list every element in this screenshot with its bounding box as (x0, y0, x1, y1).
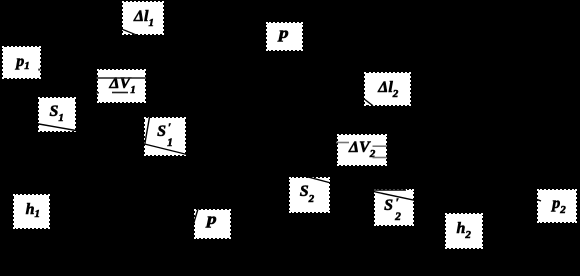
label box S1 (39, 98, 75, 131)
label box p (top) (267, 23, 302, 50)
label box p2 (538, 190, 576, 222)
label box S1-prime (145, 118, 185, 155)
label box Delta-V1 (98, 70, 145, 102)
wire steep line through p (bottom) box (193, 209, 198, 226)
wire leader through Delta-l2 box (364, 99, 374, 106)
label box S2-prime (375, 190, 413, 225)
label box h1 (14, 195, 49, 228)
label box Delta-V2 (338, 135, 386, 165)
wire diagonal line along bottom of S1-prime box (145, 144, 188, 155)
wire gray level line right lower of Delta-V2 text (373, 157, 388, 159)
label box Delta-l2 (365, 73, 410, 105)
wire tick at left edge of Delta-V1 box (96, 92, 99, 94)
label box S2 (290, 178, 329, 212)
wire short level line under Delta-V1 text (112, 92, 128, 94)
wire horizontal line through Delta-V1 box (96, 77, 146, 79)
wire horizontal line at top of S2-prime box (374, 189, 406, 191)
wire gray level line right upper of Delta-V2 text (373, 145, 388, 147)
label box Delta-l1 (123, 2, 163, 34)
label box p (bottom) (195, 210, 230, 238)
wire tick at left edge of p2 box (537, 199, 542, 201)
wire diagonal line through S2-prime box (373, 191, 418, 201)
wire dot at right edge of p1 box (38, 69, 40, 71)
label box p1 (3, 47, 40, 78)
wire steep line through S1-prime box (145, 117, 150, 145)
wire leader through S2 box (306, 176, 332, 183)
label box h2 (446, 214, 482, 248)
wire leader through S1 box (36, 124, 76, 131)
wire gray level line left of Delta-V2 text (336, 142, 349, 144)
wire leader through Delta-l1 box (122, 29, 137, 35)
